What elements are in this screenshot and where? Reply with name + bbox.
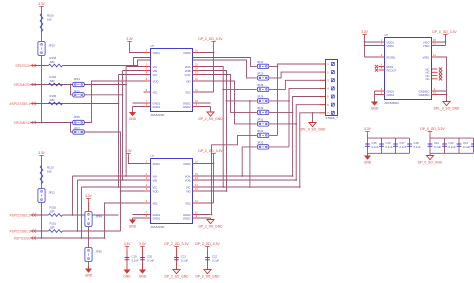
svg-text:JP20: JP20 bbox=[49, 44, 56, 48]
svg-text:STREK_7: STREK_7 bbox=[326, 116, 339, 120]
wire - U3 GNDISO to iso gnd bbox=[438, 91, 447, 102]
svg-text:#SPI2SSEL3: #SPI2SSEL3 bbox=[10, 229, 31, 233]
U1 right pins bbox=[193, 52, 200, 54]
svg-text:GND: GND bbox=[139, 275, 147, 279]
wire - decoupling cap C22 branch bbox=[207, 250, 209, 270]
svg-text:VIA: VIA bbox=[153, 65, 158, 69]
resistor R100 10K bbox=[40, 14, 43, 32]
connector pin 1 bbox=[320, 63, 326, 65]
svg-text:C19: C19 bbox=[132, 255, 138, 259]
svg-text:JP22: JP22 bbox=[257, 60, 264, 64]
wire - row A net bbox=[31, 214, 119, 216]
svg-text:VDD1: VDD1 bbox=[153, 162, 161, 166]
ground GND cap C19 bbox=[123, 270, 130, 274]
wire - row2 SPI2MOSI net bbox=[31, 84, 73, 86]
op-amp U1 ADUM1401 digital isolator bbox=[151, 49, 193, 112]
svg-text:C21: C21 bbox=[181, 255, 187, 259]
wire - decoupling cap C21 branch bbox=[176, 250, 178, 270]
svg-text:DPL_0_SO_GND: DPL_0_SO_GND bbox=[434, 107, 460, 111]
svg-text:3.3V: 3.3V bbox=[139, 242, 146, 246]
wire - JP29 wire drop to VIC2 line bbox=[249, 101, 251, 187]
wire - JP25 feed from row2 bbox=[71, 85, 73, 95]
svg-text:C22: C22 bbox=[212, 255, 218, 259]
ground DP_0_SO_GND right cap bank bbox=[426, 156, 433, 160]
svg-text:VISO: VISO bbox=[423, 40, 430, 44]
wire - JP23 feed from row1 junction bbox=[138, 60, 257, 78]
svg-text:VIC: VIC bbox=[186, 185, 191, 189]
ground GND under U2 bbox=[129, 220, 136, 224]
svg-text:VIB: VIB bbox=[153, 178, 158, 182]
wire - U2 VIA/VOA long line down to row A bbox=[73, 176, 293, 215]
wire - JP34 bottom through row C bbox=[88, 227, 90, 248]
svg-text:0.1uF: 0.1uF bbox=[386, 145, 393, 149]
jumper JP24 bbox=[73, 82, 85, 86]
svg-text:DP_2_SO_GND: DP_2_SO_GND bbox=[195, 275, 220, 279]
jumper JP32 bbox=[257, 133, 269, 137]
wire - JP27 out long riser to row B bbox=[84, 132, 120, 231]
svg-text:0.1uF: 0.1uF bbox=[147, 259, 154, 263]
svg-text:3.3V: 3.3V bbox=[361, 30, 368, 34]
svg-text:DP_2_GD_3.3V: DP_2_GD_3.3V bbox=[164, 242, 189, 246]
U3 left pins bbox=[379, 41, 385, 43]
svg-text:3.3V: 3.3V bbox=[125, 149, 132, 153]
svg-text:DP_0_GD_3.3V: DP_0_GD_3.3V bbox=[432, 30, 457, 34]
svg-text:#SPI2SSEL1: #SPI2SSEL1 bbox=[10, 102, 31, 106]
svg-text:JP31: JP31 bbox=[257, 118, 264, 122]
svg-text:VE1: VE1 bbox=[153, 201, 159, 205]
wire - U2 VE1 net corner down to row C bbox=[105, 203, 144, 238]
ground DPL_0_SO_GND under connector bbox=[309, 123, 316, 127]
wire - top-left 3.3V pullup rail bbox=[41, 10, 43, 123]
op-amp U3 ADUM6000 isolated dc-dc bbox=[385, 38, 432, 100]
jumper JP21 bbox=[38, 189, 45, 203]
U1 left pins bbox=[144, 52, 151, 54]
connector pin 2 bbox=[320, 71, 326, 73]
svg-text:JP32: JP32 bbox=[257, 129, 264, 133]
svg-text:#SPI2SSEL2: #SPI2SSEL2 bbox=[10, 213, 31, 217]
wire - U2 VDD2/VE2 rail from DP_2_GD_3.3V bbox=[200, 157, 214, 204]
port SPI2MOSI bbox=[31, 83, 36, 86]
op-amp U2 ADUM1401 digital isolator bbox=[151, 159, 193, 224]
capacitor C21 0.1uF bbox=[174, 257, 179, 259]
svg-text:JP21: JP21 bbox=[49, 191, 56, 195]
wire - VOB riser down to U2 VID bbox=[200, 101, 227, 191]
svg-text:DP_2_SO_GND: DP_2_SO_GND bbox=[198, 225, 223, 229]
svg-text:JP35: JP35 bbox=[96, 250, 103, 254]
capacitor C17 0.1uF bbox=[393, 143, 398, 145]
svg-text:GND: GND bbox=[129, 117, 137, 121]
port SPI2SCK bbox=[31, 64, 36, 67]
connector P1 STREK_7 bbox=[326, 60, 338, 116]
wire - row B net bbox=[31, 230, 121, 232]
wire - JP32 left nest to U2 GND2 net bbox=[212, 135, 257, 214]
svg-text:VID: VID bbox=[186, 79, 191, 83]
svg-text:0.1uF: 0.1uF bbox=[414, 145, 421, 149]
svg-text:3.3V: 3.3V bbox=[124, 242, 131, 246]
jumper JP30 bbox=[257, 110, 269, 114]
svg-text:VE2: VE2 bbox=[185, 201, 191, 205]
connector pin 7 bbox=[320, 112, 326, 114]
wire - U3 3.3V to VDD1/RCSEL bbox=[365, 38, 379, 58]
wire - connector pin5 to JP30 and VOA2 line bbox=[270, 97, 326, 177]
svg-text:10K: 10K bbox=[47, 170, 52, 174]
node - U3 power junctions bbox=[364, 41, 366, 43]
wire - row1 SPI2SCK net bbox=[31, 65, 138, 67]
resistor R120 10K bbox=[40, 166, 43, 184]
svg-text:GND2: GND2 bbox=[183, 213, 191, 217]
svg-text:DP_0_GD_3.3V: DP_0_GD_3.3V bbox=[420, 127, 445, 131]
svg-text:GND: GND bbox=[129, 225, 137, 229]
jumper JP33 bbox=[257, 145, 269, 149]
svg-text:ADUM1401: ADUM1401 bbox=[151, 113, 166, 117]
port #SPI2SSEL1 bbox=[31, 102, 36, 105]
ground DP_2_SO_GND cap C21 bbox=[173, 270, 180, 274]
U2 left pins bbox=[144, 163, 151, 165]
svg-text:RCOUT: RCOUT bbox=[387, 68, 397, 72]
wire - bottom-left pullup rail bbox=[41, 159, 43, 239]
svg-text:U?: U? bbox=[151, 44, 155, 48]
resistor R105 32R bbox=[49, 102, 63, 105]
svg-text:VSEL: VSEL bbox=[422, 55, 430, 59]
svg-text:NC: NC bbox=[426, 77, 430, 81]
ground GND left cap bank bbox=[364, 156, 371, 160]
svg-text:ADUM5000: ADUM5000 bbox=[385, 101, 400, 105]
wire - left cap bank ladder bbox=[368, 135, 410, 156]
wire - row4 SPI2MISO net bbox=[31, 122, 73, 124]
wire - decoupling cap C20 branch bbox=[142, 250, 144, 270]
wire - right cap bank ladder bbox=[430, 135, 474, 156]
wire - U1 VOB to JP29 bbox=[200, 71, 257, 101]
svg-text:GND1: GND1 bbox=[387, 89, 395, 93]
capacitor C16 0.1uF bbox=[379, 143, 384, 145]
node - U2 power rail junction bbox=[213, 163, 215, 165]
wire - U1 VOA to JP28 bbox=[200, 67, 257, 90]
svg-text:ADUM1401: ADUM1401 bbox=[151, 225, 166, 229]
ground GND under U1 bbox=[129, 112, 136, 116]
wire - U1 VID to JP31 bbox=[200, 81, 257, 124]
svg-text:DP_0_SO_GND: DP_0_SO_GND bbox=[418, 161, 443, 165]
svg-text:DPL_0_SO_GND: DPL_0_SO_GND bbox=[300, 128, 326, 132]
svg-text:32R: 32R bbox=[50, 60, 55, 64]
svg-text:VOA: VOA bbox=[185, 174, 191, 178]
svg-text:VIC: VIC bbox=[153, 185, 158, 189]
no-connect X marks U3 NC pins bbox=[439, 67, 442, 70]
wire - JP35 to gnd bbox=[88, 262, 90, 269]
svg-text:VIC: VIC bbox=[153, 73, 158, 77]
svg-text:GND: GND bbox=[364, 161, 372, 165]
svg-text:#SPI2SS0: #SPI2SS0 bbox=[14, 236, 31, 240]
svg-text:DP_2_SO_GND: DP_2_SO_GND bbox=[198, 117, 223, 121]
svg-text:3.3V: 3.3V bbox=[126, 37, 133, 41]
svg-text:GND1: GND1 bbox=[153, 105, 161, 109]
wire - JP24 out riser bus to U1 VIA and U2 VIA bbox=[84, 67, 143, 177]
svg-text:C13: C13 bbox=[463, 141, 469, 145]
svg-text:GNDISO: GNDISO bbox=[419, 89, 430, 93]
svg-text:32R: 32R bbox=[50, 226, 55, 230]
ground DP_2_SO_GND under U2 bbox=[207, 220, 214, 224]
svg-text:VOB: VOB bbox=[185, 69, 191, 73]
svg-text:R100: R100 bbox=[47, 14, 54, 18]
svg-text:GND1: GND1 bbox=[153, 213, 161, 217]
svg-text:U?: U? bbox=[385, 33, 389, 37]
svg-text:JP28: JP28 bbox=[257, 83, 264, 87]
svg-text:R104: R104 bbox=[50, 75, 57, 79]
wire - connector pin3 to JP28 bbox=[270, 80, 326, 89]
ground DPL_0_SO_GND under U3 bbox=[443, 102, 450, 106]
svg-text:DP_2_GD_3.3V: DP_2_GD_3.3V bbox=[198, 37, 223, 41]
svg-text:0.1uF: 0.1uF bbox=[400, 145, 407, 149]
capacitor C19 0.1uF bbox=[125, 257, 130, 259]
wire - row3 SPI2SSEL1 net bbox=[31, 103, 119, 105]
ground GND cap C20 bbox=[139, 270, 146, 274]
svg-text:GNDISO: GNDISO bbox=[419, 93, 430, 97]
wire - JP27 feed from row4 bbox=[71, 123, 73, 133]
svg-text:R120: R120 bbox=[47, 166, 54, 170]
port #SPI2SSEL3 bbox=[31, 229, 36, 232]
svg-text:VOA: VOA bbox=[185, 65, 191, 69]
port SPI2MISO bbox=[31, 121, 36, 124]
wire - U2 VIC long line down to row C bbox=[82, 187, 300, 238]
wire - connector pin7 to VIC2 line bbox=[300, 113, 326, 187]
port #SPI2SSEL2 bbox=[31, 213, 36, 216]
jumper JP28 bbox=[257, 87, 269, 91]
svg-text:VIB: VIB bbox=[153, 69, 158, 73]
svg-text:C15: C15 bbox=[372, 141, 378, 145]
wire - U1 VDD1 from 3.3V bbox=[130, 45, 144, 53]
U3 right pins bbox=[432, 41, 438, 43]
svg-text:GND: GND bbox=[371, 107, 379, 111]
svg-text:JP27: JP27 bbox=[74, 127, 81, 131]
svg-text:VOC: VOC bbox=[185, 73, 191, 77]
node - U1 power rail junction bbox=[213, 52, 215, 54]
ground DP_2_SO_GND cap C22 bbox=[204, 270, 211, 274]
wire - connector pin2 to JP23 bbox=[270, 72, 326, 78]
node - VE1 net junctions bbox=[88, 237, 90, 239]
wire - U2 VOD feed from riser bbox=[121, 190, 144, 192]
svg-text:JP29: JP29 bbox=[257, 95, 264, 99]
svg-text:R101: R101 bbox=[50, 222, 57, 226]
svg-text:JP34: JP34 bbox=[96, 215, 103, 219]
wire - row1 jog over U1 to JP22 bbox=[134, 58, 257, 67]
node - row junctions bbox=[133, 65, 135, 67]
svg-text:C20: C20 bbox=[147, 255, 153, 259]
capacitor C14 0.1uF bbox=[471, 143, 474, 145]
svg-text:SPI2SCK: SPI2SCK bbox=[15, 64, 31, 68]
svg-text:VE2: VE2 bbox=[185, 90, 191, 94]
svg-text:GND: GND bbox=[85, 274, 93, 278]
capacitor C12 0.1uF bbox=[442, 143, 447, 145]
wire - U2 VDD1 from 3.3V bbox=[129, 157, 144, 164]
svg-text:C16: C16 bbox=[386, 141, 392, 145]
svg-text:32R: 32R bbox=[50, 79, 55, 83]
wire - U3 VISO rail from DP_0_GD_3.3V bbox=[438, 37, 446, 46]
svg-text:GND1: GND1 bbox=[153, 101, 161, 105]
wire - U2 VIB/VOB long line down to row B bbox=[78, 180, 297, 231]
svg-text:SPI2MISO: SPI2MISO bbox=[14, 121, 31, 125]
resistor R102 32R bbox=[49, 214, 63, 217]
svg-text:RCSEL: RCSEL bbox=[387, 55, 397, 59]
jumper JP25 bbox=[73, 93, 85, 97]
jumper JP27 bbox=[73, 130, 85, 134]
jumper JP35 bbox=[85, 248, 92, 262]
svg-text:JP24: JP24 bbox=[74, 77, 81, 81]
jumper JP23 bbox=[257, 76, 269, 80]
svg-text:GND2: GND2 bbox=[183, 105, 191, 109]
U2 right pins bbox=[193, 163, 200, 165]
svg-text:0.1uF: 0.1uF bbox=[212, 259, 219, 263]
svg-text:JP33: JP33 bbox=[257, 141, 264, 145]
wire - U3 GND1 to gnd bbox=[375, 91, 379, 102]
svg-text:JP23: JP23 bbox=[257, 72, 264, 76]
jumper JP31 bbox=[257, 122, 269, 126]
svg-text:RCIN: RCIN bbox=[387, 65, 394, 69]
svg-text:3.3V: 3.3V bbox=[38, 2, 45, 6]
svg-text:C17: C17 bbox=[400, 141, 406, 145]
wire - U1 VDD2/VE2 rail from DP_2_GD_3.3V bbox=[200, 45, 214, 93]
svg-text:3.3V: 3.3V bbox=[85, 194, 92, 198]
wire - decoupling cap C19 branch bbox=[126, 250, 128, 270]
svg-text:10K: 10K bbox=[47, 18, 52, 22]
capacitor C20 0.1uF bbox=[140, 257, 145, 259]
wire - connector pin1 gamma to JP22/JP32 bbox=[270, 64, 326, 135]
svg-text:0.1uF: 0.1uF bbox=[132, 259, 139, 263]
node - bottom-left rail junctions bbox=[41, 214, 43, 216]
svg-text:0.1uF: 0.1uF bbox=[434, 145, 441, 149]
capacitor C15 0.1uF bbox=[365, 143, 370, 145]
no-connect X marks U3 RCIN/RCOUT bbox=[375, 65, 378, 68]
wire - row3 riser bus to U1 VIC and VIC2 line bbox=[119, 75, 144, 188]
node - row A/B/C taps bbox=[72, 214, 74, 216]
connector pin 6 bbox=[320, 104, 326, 106]
wire - JP33 left tap to VOA2 line bbox=[242, 147, 257, 176]
wire - VOA riser down to VIC2 line bbox=[222, 89, 224, 187]
svg-text:VISO: VISO bbox=[423, 44, 430, 48]
ground GND below JP35 bbox=[85, 269, 92, 273]
node - right riser junctions bbox=[312, 112, 314, 114]
svg-text:C11: C11 bbox=[434, 141, 439, 145]
svg-text:VOB: VOB bbox=[185, 178, 191, 182]
svg-text:3.3V: 3.3V bbox=[364, 127, 371, 131]
wire - U1 GND1 to gnd bbox=[133, 103, 144, 112]
wire - row C net bbox=[31, 237, 105, 239]
connector pin 4 bbox=[320, 87, 326, 89]
resistor R103 32R bbox=[49, 64, 63, 67]
resistor R101 32R bbox=[49, 230, 63, 233]
wire - JP25 out riser bus to U1 VIB and U2 VIB bbox=[84, 71, 143, 181]
capacitor C13 0.1uF bbox=[457, 143, 462, 145]
svg-text:R102: R102 bbox=[50, 206, 57, 210]
svg-text:DP_2_SO_GND: DP_2_SO_GND bbox=[164, 275, 189, 279]
svg-text:VDD2: VDD2 bbox=[183, 51, 191, 55]
svg-text:VIA: VIA bbox=[153, 174, 158, 178]
svg-text:VE1: VE1 bbox=[153, 90, 159, 94]
capacitor C18 0.1uF bbox=[407, 143, 412, 145]
svg-text:VDD1: VDD1 bbox=[387, 40, 395, 44]
wire - U2 GND2 to iso gnd bbox=[200, 215, 211, 220]
svg-text:3.3V: 3.3V bbox=[38, 151, 45, 155]
connector pin 5 bbox=[320, 96, 326, 98]
svg-text:VDD1: VDD1 bbox=[387, 44, 395, 48]
svg-text:VID: VID bbox=[186, 189, 191, 193]
svg-text:VDD1: VDD1 bbox=[153, 51, 161, 55]
jumper JP26 bbox=[73, 120, 85, 124]
svg-text:SPI2MOSI: SPI2MOSI bbox=[14, 83, 31, 87]
svg-text:32R: 32R bbox=[50, 98, 55, 102]
svg-text:JP30: JP30 bbox=[257, 106, 264, 110]
wire - connector pin7 gnd drop bbox=[312, 113, 314, 123]
wire - U2 GND1 to gnd bbox=[133, 215, 144, 220]
svg-text:0.1uF: 0.1uF bbox=[463, 145, 470, 149]
svg-text:0.1uF: 0.1uF bbox=[449, 145, 456, 149]
svg-text:GND2: GND2 bbox=[183, 101, 191, 105]
wire - JP26 out up to U1 VOD bbox=[84, 81, 143, 123]
ground DP_2_SO_GND under U1 bbox=[207, 112, 214, 116]
capacitor C22 0.1uF bbox=[205, 257, 210, 259]
svg-text:VOD: VOD bbox=[153, 189, 159, 193]
wire - U1 VOC to JP30 bbox=[200, 75, 257, 113]
svg-text:DP_2_GD_3.3V: DP_2_GD_3.3V bbox=[195, 242, 220, 246]
svg-text:VDD2: VDD2 bbox=[183, 162, 191, 166]
svg-text:GND2: GND2 bbox=[183, 216, 191, 220]
svg-text:GND1: GND1 bbox=[387, 93, 395, 97]
svg-text:0.1uF: 0.1uF bbox=[372, 145, 379, 149]
svg-text:R105: R105 bbox=[50, 94, 57, 98]
wire - connector pin6 to JP31 and VOB2 line bbox=[270, 105, 326, 180]
svg-text:JP25: JP25 bbox=[74, 90, 81, 94]
svg-text:32R: 32R bbox=[50, 210, 55, 214]
svg-text:GND1: GND1 bbox=[153, 216, 161, 220]
svg-text:0.1uF: 0.1uF bbox=[181, 259, 188, 263]
svg-text:VOD: VOD bbox=[153, 79, 159, 83]
svg-text:GND: GND bbox=[123, 275, 131, 279]
jumper JP22 bbox=[257, 64, 269, 68]
wire - U3 VSEL tie to GNDISO bbox=[438, 57, 447, 95]
svg-text:DP_2_GD_3.3V: DP_2_GD_3.3V bbox=[198, 149, 223, 153]
wire - 3.3V stem into JP34 bbox=[88, 202, 90, 212]
jumper JP29 bbox=[257, 99, 269, 103]
port #SPI2SS0 bbox=[31, 236, 36, 239]
svg-text:R103: R103 bbox=[50, 56, 57, 60]
svg-text:C12: C12 bbox=[449, 141, 455, 145]
wire - connector pin4 gamma to JP29/JP33 bbox=[270, 88, 326, 146]
resistor R104 32R bbox=[49, 83, 63, 86]
node - pullup rail junctions bbox=[41, 65, 43, 67]
svg-text:JP26: JP26 bbox=[74, 115, 81, 119]
wire - U1 GND2 to iso gnd bbox=[200, 103, 211, 112]
ground GND under U3 bbox=[371, 102, 378, 106]
svg-text:C18: C18 bbox=[414, 141, 420, 145]
connector pin 3 bbox=[320, 79, 326, 81]
node - long line junctions bbox=[120, 190, 122, 192]
jumper JP20 bbox=[38, 42, 45, 56]
jumper JP34 bbox=[85, 212, 92, 227]
capacitor C11 0.1uF bbox=[428, 143, 433, 145]
svg-text:U?: U? bbox=[151, 154, 155, 158]
